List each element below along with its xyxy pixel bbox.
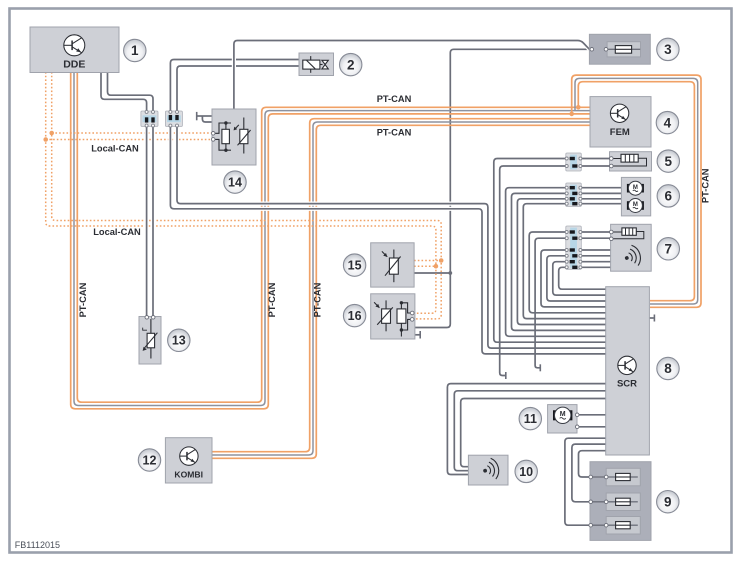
wire connector to unit7 heater — [581, 237, 612, 239]
svg-text:FEM: FEM — [610, 127, 630, 138]
wire SCR to unit10 inner — [461, 399, 607, 467]
svg-text:PT-CAN: PT-CAN — [313, 282, 323, 317]
node 1 label circle — [124, 39, 146, 61]
svg-text:PT-CAN: PT-CAN — [78, 282, 88, 317]
svg-text:DDE: DDE — [63, 59, 85, 71]
connector X7 — [565, 226, 582, 269]
node 15 label circle — [343, 254, 365, 276]
dashed junction dot 4 — [434, 264, 439, 269]
wire connector to unit7 sensor — [581, 255, 611, 257]
wire valve2 to SCR outer — [170, 60, 606, 354]
wire unit6 to SCR 2 — [512, 193, 607, 330]
unit9 fuse symbol 2 — [589, 498, 638, 505]
connector X6 — [565, 183, 582, 207]
wire connector to unit6 2 — [581, 192, 622, 194]
dashed junction dot 3 — [439, 258, 444, 263]
unit9 fuse symbol 1 — [589, 473, 638, 480]
valve V2 box — [299, 53, 334, 76]
svg-text:12: 12 — [143, 453, 157, 467]
wire SCR to unit9 outer — [565, 438, 607, 525]
unit9 fuse box 2 — [606, 493, 640, 511]
sensor unit 10 box — [468, 455, 508, 485]
unit 7 box — [611, 224, 652, 271]
svg-text:5: 5 — [665, 154, 673, 169]
node 2 label circle — [340, 53, 362, 75]
wire unit7 to SCR 3 — [547, 256, 607, 301]
svg-text:2: 2 — [347, 57, 355, 72]
wire unit16 ground lead — [415, 334, 420, 336]
injector unit 9 outer box — [590, 462, 651, 541]
pump unit 6 box — [621, 177, 650, 216]
wire unit14 ground lead lower — [202, 116, 212, 122]
wire unit6 to SCR 4 — [523, 204, 606, 319]
svg-text:11: 11 — [524, 412, 537, 426]
wire connector to unit6 4 — [581, 203, 622, 205]
ground bar at unit16 — [419, 331, 421, 339]
unit5 heater coil symbol — [610, 154, 647, 168]
svg-text:13: 13 — [172, 334, 186, 348]
unit7 heater coil symbol — [610, 228, 644, 241]
node 8 label circle — [657, 357, 679, 379]
Local-CAN dashed stub unit 15 upper — [414, 260, 441, 262]
unit15 internal symbol — [382, 250, 401, 283]
svg-text:14: 14 — [228, 175, 242, 189]
ground bar at SCR right — [653, 315, 655, 322]
bus junction dot upper — [576, 105, 581, 110]
wire unit7 to SCR 2 — [541, 250, 607, 307]
pump unit 11 box — [548, 405, 577, 433]
node 10 label circle — [515, 460, 537, 482]
pressure sensor 15 box — [371, 243, 414, 287]
svg-text:16: 16 — [348, 309, 362, 323]
node 4 label circle — [656, 111, 678, 133]
wire fuse3 to unit14 — [234, 41, 590, 111]
unit 16 box — [371, 294, 415, 339]
fuse F3 inner box — [607, 42, 640, 57]
dashed junction dot 1 — [49, 131, 54, 136]
wire unit5 lead to ground — [500, 166, 566, 376]
wire connector to unit7 sensor — [581, 266, 611, 268]
control unit U12 KOMBI box — [165, 438, 212, 483]
junction dot node 15 supply — [448, 271, 452, 275]
connector X2 — [165, 110, 182, 127]
svg-text:KOMBI: KOMBI — [174, 470, 203, 480]
svg-text:7: 7 — [665, 242, 673, 257]
unit11 pump symbol — [553, 407, 572, 423]
unit11 pins — [575, 413, 579, 429]
wire unit7 to SCR 1 — [529, 232, 606, 313]
wire unit7 to SCR 5 — [559, 267, 607, 289]
control unit U4 FEM box — [590, 97, 651, 147]
node 14 label circle — [224, 171, 246, 193]
svg-text:PT-CAN: PT-CAN — [701, 168, 711, 203]
KOMBI symbol — [180, 447, 198, 465]
node 7 label circle — [657, 238, 679, 260]
FEM symbol — [610, 104, 628, 122]
unit16 internal symbols — [374, 300, 414, 336]
wire unit6 to SCR 3 — [517, 199, 606, 325]
svg-text:SCR: SCR — [617, 379, 637, 390]
wire unit5 to SCR — [494, 159, 607, 343]
wire connector to unit5 b — [581, 165, 612, 167]
wire connector to unit7 sensor — [581, 261, 611, 263]
temperature sensor 13 box — [139, 317, 161, 365]
node 12 label circle — [138, 449, 160, 471]
wire connector to unit7 sensor — [581, 249, 611, 251]
connector X5 — [565, 153, 582, 171]
wire SCR right ground lead — [649, 317, 653, 319]
unit10 sensor symbol — [481, 457, 501, 482]
svg-text:10: 10 — [519, 465, 533, 479]
wire unit14 ground lead upper — [197, 115, 212, 117]
node 11 label circle — [519, 407, 541, 429]
wire connector to unit6 1 — [581, 187, 622, 189]
svg-text:PT-CAN: PT-CAN — [377, 94, 412, 104]
svg-text:M: M — [560, 411, 566, 418]
ground bar bundle left — [505, 372, 507, 379]
wire connector to unit7 heater — [581, 231, 612, 233]
wire SCR to unit9 mid — [572, 444, 607, 502]
control unit U8 SCR box — [606, 287, 650, 455]
Local-CAN dashed line A — [52, 72, 442, 319]
wire SCR to unit10 outer — [447, 384, 606, 475]
wire SCR to unit9 inner — [579, 451, 607, 477]
heater unit 5 box — [610, 152, 652, 171]
wire unit7 to SCR 4 — [553, 262, 607, 295]
node 16 label circle — [343, 304, 365, 326]
unit9 fuse box 3 — [606, 517, 640, 535]
wire unit6 to SCR 1 — [506, 188, 607, 337]
control unit U1 DDE box — [30, 27, 119, 73]
svg-text:Local-CAN: Local-CAN — [91, 144, 139, 154]
svg-text:PT-CAN: PT-CAN — [377, 128, 412, 138]
connector X1 — [141, 110, 158, 127]
fuse F3 symbol — [590, 46, 640, 54]
node 3 label circle — [657, 38, 679, 60]
node 6 label circle — [657, 185, 679, 207]
wire SCR to unit10 mid — [454, 391, 606, 471]
svg-text:1: 1 — [131, 43, 139, 58]
wire unit7 lead to ground — [535, 238, 566, 368]
unit14 internal symbols — [211, 118, 250, 154]
Local-CAN dashed branch to unit 14 lower — [46, 139, 213, 141]
Local-CAN dashed line B — [46, 72, 436, 313]
node 13 label circle — [168, 329, 190, 351]
unit6 pump symbols — [627, 181, 644, 195]
svg-text:6: 6 — [665, 189, 673, 204]
ground bar bundle right — [539, 364, 541, 371]
wire fuse3 supply to units 15/16 — [415, 49, 590, 327]
wire unit15 to supply line — [414, 272, 450, 274]
wire valve2 to SCR inner — [177, 66, 607, 348]
wire DDE to unit13 inner — [108, 72, 154, 317]
unit 14 box — [212, 109, 256, 165]
SCR symbol — [618, 356, 636, 374]
Local-CAN dashed stub unit 15 lower — [414, 265, 436, 267]
node 5 label circle — [657, 150, 679, 172]
node 9 label circle — [657, 491, 679, 513]
ground bar at unit14 — [196, 112, 198, 120]
svg-text:9: 9 — [664, 494, 672, 509]
wire SCR to unit11 a — [577, 414, 607, 416]
PT-CAN bus KOMBI to FEM — [212, 119, 591, 459]
unit7 level sensor symbol — [622, 244, 643, 269]
svg-text:Local-CAN: Local-CAN — [93, 227, 141, 237]
svg-text:FB1112015: FB1112015 — [15, 540, 60, 550]
Local-CAN dashed branch to unit 14 upper — [52, 132, 213, 134]
bus junction dot lower — [569, 112, 574, 117]
valve V2 symbol — [303, 56, 329, 73]
wire SCR to unit11 b — [551, 417, 607, 427]
PT-CAN bus DDE to FEM — [71, 72, 591, 409]
wire DDE to unit13 outer — [101, 72, 147, 317]
svg-text:4: 4 — [664, 115, 672, 130]
svg-text:3: 3 — [664, 42, 672, 57]
unit9 fuse symbol 3 — [589, 522, 638, 529]
svg-text:PT-CAN: PT-CAN — [267, 282, 277, 317]
fuse F3 outer box — [589, 34, 650, 64]
svg-text:15: 15 — [348, 258, 362, 272]
wire connector to unit6 3 — [581, 198, 622, 200]
DDE symbol — [64, 35, 85, 56]
PT-CAN bus FEM to SCR — [572, 75, 701, 307]
svg-text:8: 8 — [664, 361, 672, 376]
dashed junction dot 2 — [43, 137, 48, 142]
wire connector to unit5 a — [581, 158, 612, 160]
unit9 fuse box 1 — [606, 468, 640, 486]
unit13 internal symbol — [143, 316, 158, 359]
